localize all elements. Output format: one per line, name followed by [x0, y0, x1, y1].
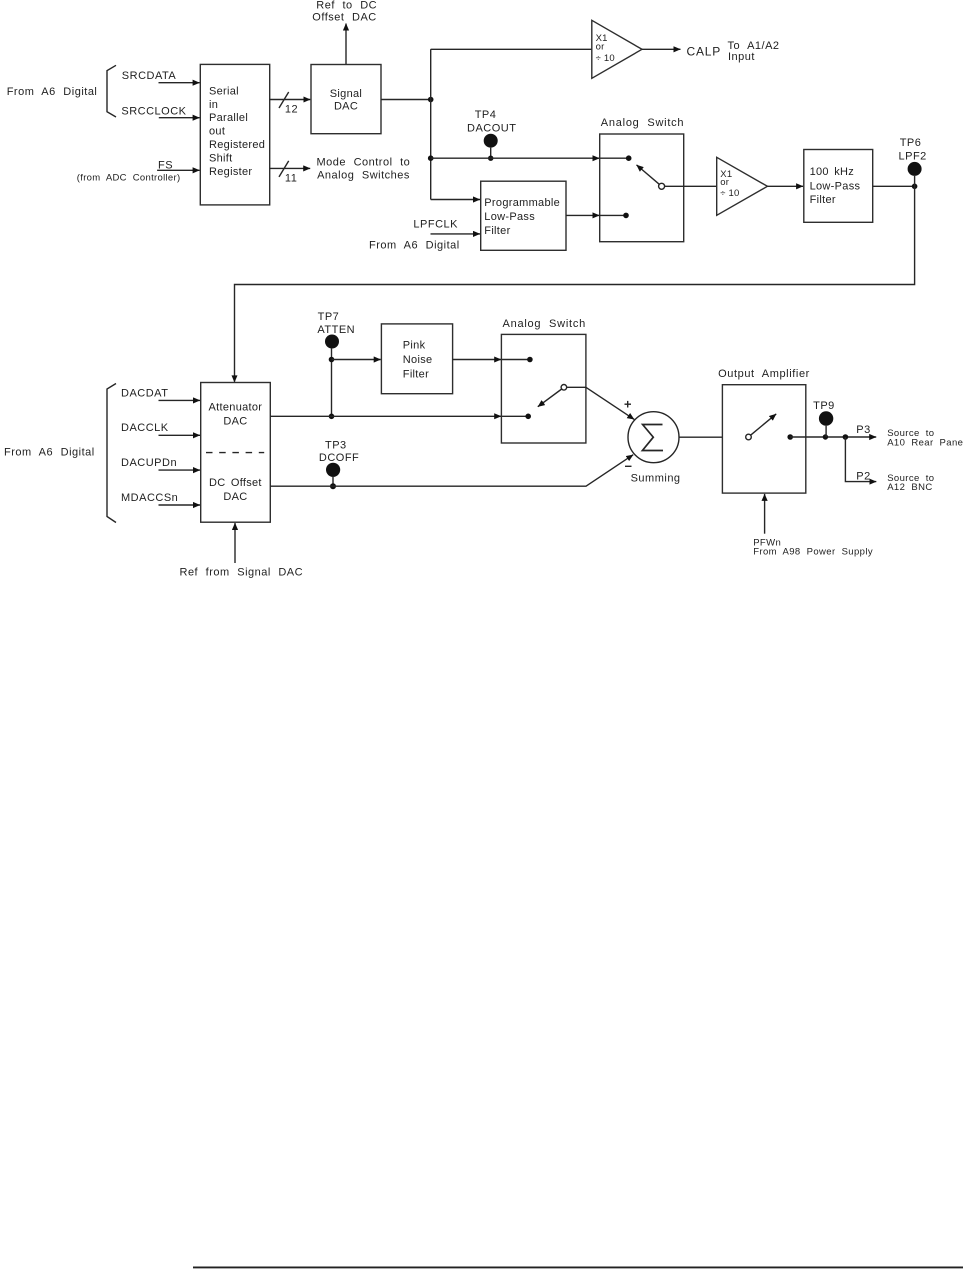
svg-text:÷ 10: ÷ 10 — [596, 53, 615, 64]
svg-text:From A6 Digital: From A6 Digital — [369, 239, 460, 251]
svg-text:Summing: Summing — [631, 473, 681, 485]
svg-text:DAC: DAC — [334, 100, 358, 112]
svg-text:Attenuator: Attenuator — [209, 402, 263, 414]
svg-text:Offset DAC: Offset DAC — [312, 12, 376, 24]
svg-text:Pink: Pink — [403, 339, 426, 351]
svg-text:P3: P3 — [856, 424, 870, 436]
svg-text:÷ 10: ÷ 10 — [720, 188, 739, 199]
svg-text:100 kHz: 100 kHz — [810, 166, 854, 178]
svg-text:TP3: TP3 — [325, 440, 347, 452]
svg-text:Filter: Filter — [403, 368, 429, 380]
svg-text:Register: Register — [209, 166, 252, 178]
svg-text:TP6: TP6 — [900, 137, 922, 149]
svg-text:CALP: CALP — [687, 45, 722, 59]
svg-text:Output Amplifier: Output Amplifier — [718, 368, 810, 380]
svg-text:TP4: TP4 — [475, 109, 497, 121]
svg-text:TP9: TP9 — [813, 400, 835, 412]
svg-text:From A6 Digital: From A6 Digital — [7, 86, 98, 98]
svg-text:TP7: TP7 — [318, 311, 340, 323]
svg-text:Filter: Filter — [484, 225, 510, 237]
svg-text:A12 BNC: A12 BNC — [887, 482, 932, 493]
svg-text:Shift: Shift — [209, 152, 233, 164]
svg-text:11: 11 — [285, 173, 297, 185]
svg-text:P2: P2 — [856, 470, 870, 482]
svg-text:Input: Input — [728, 51, 755, 63]
svg-text:Analog Switch: Analog Switch — [601, 117, 684, 129]
svg-text:Mode Control to: Mode Control to — [317, 157, 411, 169]
svg-text:DACUPDn: DACUPDn — [121, 457, 177, 469]
svg-text:DAC: DAC — [223, 491, 247, 503]
svg-text:SRCDATA: SRCDATA — [122, 70, 177, 82]
svg-text:DACOUT: DACOUT — [467, 122, 516, 134]
svg-text:12: 12 — [285, 104, 298, 116]
svg-text:Noise: Noise — [403, 354, 433, 366]
svg-text:(from ADC Controller): (from ADC Controller) — [77, 173, 181, 184]
svg-text:Registered: Registered — [209, 139, 265, 151]
svg-text:From A98 Power Supply: From A98 Power Supply — [753, 546, 873, 557]
svg-text:From A6 Digital: From A6 Digital — [4, 447, 95, 459]
svg-text:DACCLK: DACCLK — [121, 422, 169, 434]
svg-text:out: out — [209, 126, 225, 138]
svg-text:ATTEN: ATTEN — [317, 324, 355, 336]
svg-text:Signal: Signal — [330, 88, 362, 100]
svg-text:DACDAT: DACDAT — [121, 387, 168, 399]
svg-text:Analog Switch: Analog Switch — [503, 318, 586, 330]
svg-text:Serial: Serial — [209, 85, 239, 97]
svg-text:A10 Rear Panel: A10 Rear Panel — [887, 438, 963, 449]
svg-text:or: or — [596, 42, 605, 53]
svg-text:Low-Pass: Low-Pass — [810, 180, 861, 192]
svg-text:DCOFF: DCOFF — [319, 452, 359, 464]
svg-text:DAC: DAC — [223, 415, 247, 427]
svg-text:SRCCLOCK: SRCCLOCK — [121, 106, 186, 118]
svg-text:in: in — [209, 99, 218, 111]
svg-text:LPF2: LPF2 — [899, 150, 927, 162]
svg-text:Analog Switches: Analog Switches — [317, 169, 410, 181]
svg-text:Ref from Signal DAC: Ref from Signal DAC — [180, 566, 304, 578]
svg-text:Low-Pass: Low-Pass — [484, 211, 535, 223]
svg-text:Filter: Filter — [810, 194, 836, 206]
svg-text:LPFCLK: LPFCLK — [413, 219, 458, 231]
svg-text:or: or — [720, 177, 729, 188]
svg-text:Parallel: Parallel — [209, 112, 248, 124]
svg-text:Ref to DC: Ref to DC — [316, 0, 377, 11]
svg-text:Programmable: Programmable — [484, 197, 560, 209]
svg-text:MDACCSn: MDACCSn — [121, 492, 178, 504]
svg-text:DC Offset: DC Offset — [209, 477, 262, 489]
